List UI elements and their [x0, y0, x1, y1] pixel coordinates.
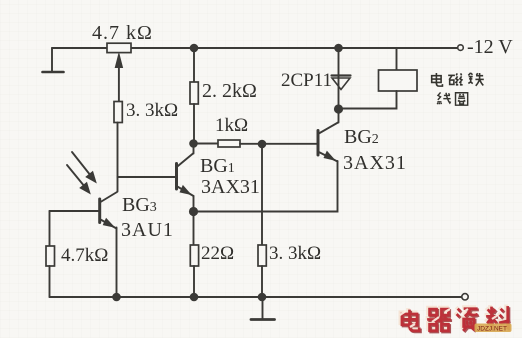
ground G2 bottom [251, 297, 275, 320]
diode D1 2CP11 [332, 76, 351, 90]
relay coil top wire [396, 48, 398, 70]
label 电磁铁 [432, 73, 484, 105]
supply label -12V [467, 36, 513, 59]
terminal bottom right [462, 294, 468, 300]
wire 4.7k bottom to rail [49, 266, 51, 297]
watermark shine specks [400, 309, 498, 327]
wire top rail to 2.2k [193, 48, 195, 82]
wire node C down through 3.3k to bottom rail [261, 144, 263, 245]
potentiometer R1 4.7k body [107, 43, 131, 52]
ground G1 top-left [43, 48, 64, 72]
value label 1k [215, 115, 248, 137]
potentiometer wiper arrow [115, 54, 122, 102]
wire top rail [52, 47, 457, 49]
wire 1k to BG2 base [240, 143, 317, 145]
value label 22 ohm [201, 243, 234, 265]
watermark 电器资料 dark shadow layer [403, 307, 510, 332]
junction node C [258, 140, 267, 149]
wire BG2 collector to node D [338, 109, 340, 123]
svg-text:JDZJ.NET: JDZJ.NET [477, 326, 507, 333]
wire BG1 collector up to node B [193, 144, 195, 154]
transistor Q1 BG3 3AU1 [100, 192, 117, 229]
wire 3.3k lower bottom [261, 266, 263, 297]
value label 4.7k pot [92, 22, 153, 45]
terminal -12V [458, 45, 464, 51]
transistor Q2 BG1 3AX31 [177, 154, 194, 197]
value label 3.3k lower [269, 243, 321, 265]
junction bottom rail BG3 [112, 293, 121, 302]
wire diode branch [338, 48, 340, 109]
value label 2CP11 [281, 70, 332, 92]
transistor Q3 BG2 3AX31 [318, 123, 338, 162]
junction bottom rail ground [258, 293, 267, 302]
wire node A to BG1 base [118, 176, 176, 178]
wire BG3 emitter to bottom rail [116, 228, 118, 298]
value label 3.3k upper [126, 100, 178, 122]
value label 4.7k left [61, 245, 108, 267]
designator BG2 [344, 126, 379, 149]
wire 22ohm bottom to rail [193, 266, 195, 297]
wire common emitter link [194, 161, 338, 212]
resistor R2 3.3k (upper-left) body [114, 102, 122, 123]
wire node B to 1k [194, 143, 219, 145]
label 线圈 [437, 92, 450, 104]
relay coil body [379, 70, 418, 91]
value label 3AX31 (BG1) [201, 176, 260, 199]
junction top rail / diode [334, 44, 343, 53]
resistor R6 4.7k body [46, 246, 55, 266]
wire BG3 base left [50, 210, 100, 212]
value label 3AX31 (BG2) [343, 152, 407, 175]
watermark badge [475, 324, 512, 333]
relay coil bottom wire [339, 91, 397, 109]
junction bottom rail 22ohm [190, 293, 199, 302]
resistor R3 2.2k body [190, 82, 198, 104]
wire base branch down to 4.7k [49, 211, 51, 246]
junction top rail / 2.2k [190, 44, 199, 53]
resistor R7 22ohm body [190, 245, 198, 266]
junction node B [189, 139, 198, 148]
wire BG1 emitter down to 22ohm [193, 196, 195, 245]
light arrow 2 [67, 165, 90, 194]
junction BG1 emitter [189, 207, 198, 216]
value label 2.2k [202, 80, 257, 103]
junction node D diode/coil/collector [334, 104, 343, 113]
watermark 电器资料 red layer [402, 306, 509, 331]
resistor R5 3.3k (lower) body [258, 245, 266, 266]
watermark 电器资料 highlight layer [400, 305, 507, 330]
resistor R4 1k body [218, 140, 240, 147]
value label 3AU1 [121, 219, 174, 242]
wire 2.2k bottom to node B [193, 104, 195, 144]
designator BG1 [200, 155, 235, 178]
wire 3.3k bottom to BG3 collector node [117, 123, 119, 192]
wire bottom rail [50, 296, 462, 298]
designator BG3 [122, 194, 157, 217]
light arrow 1 [72, 152, 96, 183]
